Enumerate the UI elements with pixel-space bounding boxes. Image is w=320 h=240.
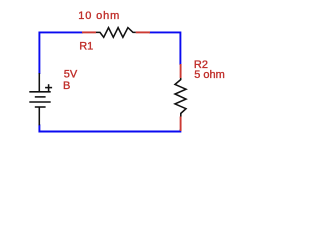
svg-text:5V: 5V [64, 68, 78, 80]
svg-text:10 ohm: 10 ohm [78, 10, 120, 22]
svg-text:R1: R1 [79, 40, 93, 52]
svg-text:5 ohm: 5 ohm [194, 69, 225, 81]
svg-text:B: B [63, 80, 70, 92]
